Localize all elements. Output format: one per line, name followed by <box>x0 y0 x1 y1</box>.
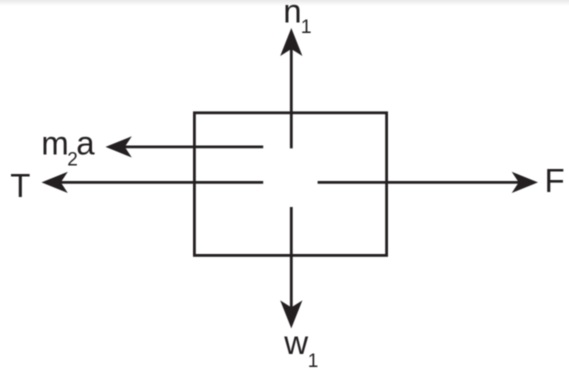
block m1 (rectangle) <box>194 113 386 256</box>
label n1 <box>283 0 311 38</box>
svg-text:w: w <box>283 324 308 361</box>
arrowhead m2a <box>106 136 132 157</box>
svg-text:a: a <box>76 125 95 162</box>
wire: m2a arrow shaft <box>120 145 263 148</box>
label w1 <box>283 324 318 370</box>
svg-text:n: n <box>283 0 301 30</box>
svg-text:T: T <box>10 167 30 204</box>
wire: w1 arrow shaft <box>290 207 293 312</box>
wire: F arrow shaft (right segment of horizontal line) <box>318 181 524 184</box>
top gradient band <box>0 0 569 6</box>
wire: T arrow shaft (left segment of horizontal line) <box>56 181 263 184</box>
arrowhead F <box>512 172 538 193</box>
svg-text:F: F <box>545 162 565 199</box>
svg-text:1: 1 <box>301 16 312 38</box>
svg-text:1: 1 <box>308 351 319 370</box>
arrowhead w1 <box>280 300 302 328</box>
label T <box>10 167 30 204</box>
wire: n1 arrow shaft <box>290 44 293 148</box>
label F <box>545 162 565 199</box>
arrowhead T <box>42 172 68 193</box>
label m2a <box>41 125 95 171</box>
svg-text:m: m <box>41 125 68 162</box>
arrowhead n1 <box>280 28 302 56</box>
